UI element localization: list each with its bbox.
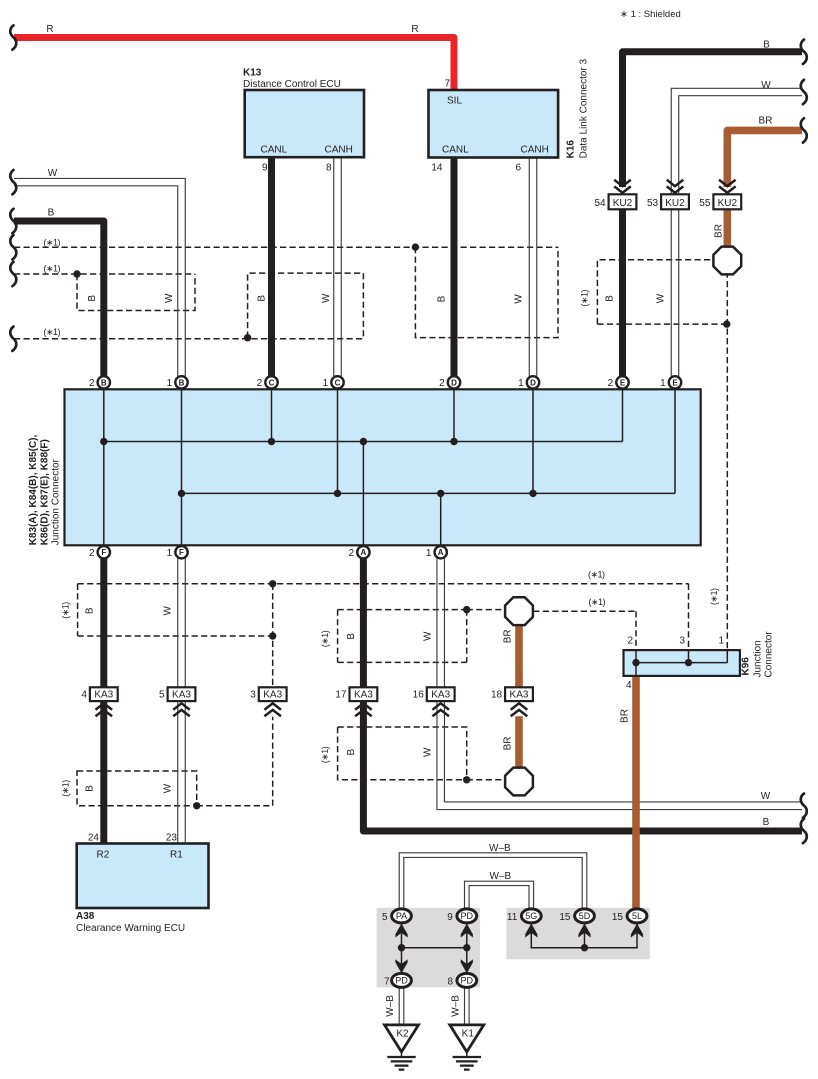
svg-text:5L: 5L <box>632 911 642 921</box>
svg-text:E: E <box>620 378 626 387</box>
junction dot dashed line no.3 / C box <box>244 334 251 341</box>
svg-text:KA3: KA3 <box>354 690 373 701</box>
svg-text:KU2: KU2 <box>665 198 685 209</box>
svg-text:F: F <box>101 548 106 557</box>
svg-text:W: W <box>48 168 58 179</box>
svg-text:K96: K96 <box>741 657 752 676</box>
wire B (left, to 2B) <box>14 221 104 376</box>
arrow above PD(8) <box>461 959 473 973</box>
junction dot dashed line no.2 / B box <box>73 270 80 277</box>
svg-text:E: E <box>672 378 678 387</box>
shield octagon (lower, below 18 KA3) <box>505 768 533 796</box>
svg-text:7: 7 <box>384 977 390 988</box>
svg-text:B: B <box>605 295 616 302</box>
arrow below 5G <box>525 924 537 938</box>
connector K16 Data Link Connector 3 <box>429 90 559 158</box>
svg-text:2: 2 <box>89 548 95 559</box>
svg-text:D: D <box>451 378 457 387</box>
shield arrows above 55 KU2 <box>719 180 736 193</box>
shield arrows below 4 KA3 <box>96 703 113 716</box>
lower shield box around 17/16 KA3 wires <box>338 727 467 780</box>
wire BR (top right) through 55 KU2 to shield octagon <box>727 130 802 187</box>
shield drain dashed wire to K96 pin 1 <box>726 262 728 650</box>
svg-text:B: B <box>763 40 770 51</box>
ECU A38 Clearance Warning ECU <box>77 844 209 909</box>
svg-text:B: B <box>87 295 98 302</box>
svg-text:K16: K16 <box>566 140 577 159</box>
ground K2 <box>385 1025 419 1052</box>
junction connector K96 box <box>624 650 740 676</box>
svg-text:5: 5 <box>159 690 165 701</box>
svg-text:(∗1): (∗1) <box>588 570 605 580</box>
link wire PD(9) to PD(8) <box>466 916 468 974</box>
svg-text:PD: PD <box>461 911 474 921</box>
shield arrows below 16 KA3 <box>432 703 449 716</box>
svg-text:16: 16 <box>413 690 425 701</box>
shield box around 17/16 KA3 wires <box>338 609 467 611</box>
svg-text:W: W <box>761 80 771 91</box>
connector 4 KA3 <box>90 687 118 701</box>
junction box pin 2(E) <box>616 376 628 388</box>
junction dot F box bottom <box>269 632 276 639</box>
arrow below 5L <box>631 924 643 938</box>
svg-text:5: 5 <box>382 912 388 923</box>
svg-text:W–B: W–B <box>490 871 512 882</box>
svg-text:K83(A), K84(B), K85(C),: K83(A), K84(B), K85(C), <box>28 435 39 546</box>
svg-text:A38: A38 <box>76 911 95 922</box>
junction dot lower A box <box>463 776 470 783</box>
wire B (top right) through 54 KU2 to 2E <box>623 52 803 187</box>
junction box pin 2(B) <box>98 376 110 388</box>
shield octagon (top right) <box>713 247 741 275</box>
svg-text:C: C <box>269 378 275 387</box>
junction dot A box top <box>463 606 470 613</box>
arrow below 5D <box>578 924 590 938</box>
wire W (top right, to 1E) <box>671 88 802 376</box>
svg-text:(∗1): (∗1) <box>320 746 330 763</box>
shield drain dashed wire to 3 KA3 <box>272 584 274 688</box>
svg-text:A: A <box>438 548 444 557</box>
svg-text:BR: BR <box>502 736 513 750</box>
dashed shield wire from octagon to K96 pin 2 <box>533 610 636 612</box>
arrow below PA <box>395 924 407 938</box>
wire W from 1F to A38 pin 23 <box>177 559 179 844</box>
wire B from K16 CANL pin 14 to 2D <box>451 158 458 377</box>
svg-text:KA3: KA3 <box>510 690 529 701</box>
svg-text:W–B: W–B <box>450 995 461 1017</box>
link wire PA-PD horizontal <box>402 947 467 949</box>
junction dot dashed line no.1 / D box <box>412 243 419 250</box>
shield arrows below 3 KA3 <box>264 703 281 716</box>
wire B from 2F to A38 pin 24 <box>100 559 107 844</box>
svg-text:B: B <box>85 607 96 614</box>
connector pin 15 5D <box>575 909 595 923</box>
dashed shield line (*1) no.1 <box>14 246 558 248</box>
svg-text:B: B <box>85 785 96 792</box>
svg-text:B: B <box>256 295 267 302</box>
shield box around 2E/1E wires <box>597 260 713 324</box>
svg-text:2: 2 <box>627 636 633 647</box>
junction box pin 1(E) <box>669 376 681 388</box>
svg-text:2: 2 <box>439 378 445 389</box>
wire W from K13 CANH pin 8 to 1C <box>333 157 335 376</box>
svg-text:C: C <box>335 378 341 387</box>
junction box pin 1(F) <box>175 546 187 558</box>
svg-text:W: W <box>514 294 525 304</box>
svg-text:1: 1 <box>167 548 173 559</box>
svg-text:B: B <box>48 208 55 219</box>
svg-text:KU2: KU2 <box>718 198 738 209</box>
svg-text:W–B: W–B <box>385 995 396 1017</box>
svg-text:1: 1 <box>660 378 666 389</box>
svg-text:F: F <box>179 548 184 557</box>
svg-text:Clearance Warning ECU: Clearance Warning ECU <box>76 923 185 934</box>
junction box pin 2(F) <box>98 546 110 558</box>
svg-text:(∗1): (∗1) <box>709 588 719 605</box>
wire W-B from PD(7) to ground K2 <box>398 988 400 1025</box>
svg-text:(∗1): (∗1) <box>320 630 330 647</box>
lower shield box around 2F/1F wires <box>77 771 197 806</box>
svg-text:18: 18 <box>491 690 503 701</box>
svg-text:CANH: CANH <box>325 145 353 156</box>
svg-text:54: 54 <box>594 198 606 209</box>
svg-text:W: W <box>162 606 173 616</box>
gray shield block (PA/PD connectors) <box>377 908 480 988</box>
svg-text:14: 14 <box>431 163 443 174</box>
junction box pin 1(C) <box>331 376 343 388</box>
svg-text:A: A <box>361 548 367 557</box>
svg-text:B: B <box>346 633 357 640</box>
connector 5 KA3 <box>168 687 196 701</box>
svg-text:R: R <box>411 24 418 35</box>
junction dot E box drain <box>723 320 730 327</box>
junction box pin 2(A) <box>357 546 369 558</box>
junction box pin 1(A) <box>435 546 447 558</box>
svg-text:24: 24 <box>88 833 100 844</box>
svg-text:(∗1): (∗1) <box>44 264 61 274</box>
arrow below PD(9) <box>461 924 473 938</box>
connector 3 KA3 <box>259 687 287 701</box>
connector pin 9 PD <box>457 909 477 923</box>
dashed shield line (*1) no.3 <box>14 338 365 340</box>
arrow above PD(7) <box>395 959 407 973</box>
svg-text:17: 17 <box>335 690 347 701</box>
svg-text:Data Link Connector 3: Data Link Connector 3 <box>579 58 590 158</box>
wire W-B from PA to 5D <box>399 853 587 910</box>
svg-text:BR: BR <box>759 116 773 127</box>
connector 17 KA3 <box>350 687 378 701</box>
svg-text:B: B <box>179 378 185 387</box>
svg-text:2: 2 <box>257 378 263 389</box>
svg-text:2: 2 <box>89 378 95 389</box>
svg-text:4: 4 <box>626 680 632 691</box>
connector 53 KU2 <box>661 194 689 209</box>
svg-text:K13: K13 <box>243 68 262 79</box>
svg-text:(∗1): (∗1) <box>61 780 71 797</box>
svg-text:CANH: CANH <box>521 145 549 156</box>
junction box pin 1(B) <box>175 376 187 388</box>
svg-text:15: 15 <box>612 912 624 923</box>
svg-text:6: 6 <box>515 163 521 174</box>
link wire PA to PD(7) <box>401 916 403 974</box>
shield arrows below 18 KA3 <box>511 703 528 716</box>
svg-text:W–B: W–B <box>489 843 511 854</box>
wire BR octagon to 18 KA3 <box>515 625 523 687</box>
svg-text:53: 53 <box>647 198 659 209</box>
svg-text:B: B <box>101 378 107 387</box>
shield drain dashed from lower F box to 3 KA3 <box>197 805 273 807</box>
junction box bus junction dots <box>100 438 107 445</box>
svg-text:W: W <box>321 293 332 303</box>
shield box around 2B/1B wires <box>77 274 195 311</box>
svg-text:KA3: KA3 <box>172 690 191 701</box>
junction connector K83(A)...K88(F) box <box>65 389 701 545</box>
junction box pin 1(D) <box>527 376 539 388</box>
svg-text:1: 1 <box>167 378 173 389</box>
svg-text:KA3: KA3 <box>431 690 450 701</box>
svg-text:K86(D), K87(E), K88(F): K86(D), K87(E), K88(F) <box>40 439 51 545</box>
junction dot lower F box <box>193 802 200 809</box>
junction box pin 2(C) <box>265 376 277 388</box>
wire W (left, to 1B) <box>14 178 185 376</box>
ground K1 <box>450 1025 484 1052</box>
junction box pin 2(D) <box>448 376 460 388</box>
wire B from 2A through 17 KA3 to right edge <box>363 559 802 832</box>
wire W from 1A through 16 KA3 to right edge <box>437 559 802 810</box>
svg-text:R1: R1 <box>170 850 183 861</box>
svg-text:∗ 1 : Shielded: ∗ 1 : Shielded <box>620 9 681 20</box>
svg-text:W: W <box>162 783 173 793</box>
svg-text:PD: PD <box>461 976 474 986</box>
svg-text:K1: K1 <box>462 1029 475 1040</box>
dashed shield wire from lower A box to octagon <box>467 779 505 781</box>
wire W from K16 CANH pin 6 to 1D <box>528 158 530 377</box>
svg-text:KU2: KU2 <box>613 198 633 209</box>
connector pin 8 PD <box>457 973 477 987</box>
svg-text:(∗1): (∗1) <box>44 238 61 248</box>
svg-text:Junction Connector: Junction Connector <box>51 458 62 545</box>
svg-text:B: B <box>763 817 770 828</box>
connector pin 7 PD <box>392 973 412 987</box>
wire W-B from PD(9) to 5G <box>465 881 534 909</box>
gray shield block (5G/5D/5L connectors) <box>506 908 649 960</box>
shield arrows above 53 KU2 <box>667 180 684 193</box>
svg-text:KA3: KA3 <box>94 690 113 701</box>
connector 18 KA3 <box>505 687 533 701</box>
svg-text:BR: BR <box>620 709 631 723</box>
svg-text:SIL: SIL <box>447 96 462 107</box>
svg-text:5D: 5D <box>579 911 591 921</box>
svg-text:(∗1): (∗1) <box>580 290 590 307</box>
svg-text:BR: BR <box>713 224 724 238</box>
svg-text:(∗1): (∗1) <box>589 597 606 607</box>
connector pin 5 PA <box>392 909 412 923</box>
svg-text:9: 9 <box>447 912 453 923</box>
junction box internal bus CANH <box>182 492 676 494</box>
svg-text:15: 15 <box>559 912 571 923</box>
svg-text:1: 1 <box>426 548 432 559</box>
svg-text:55: 55 <box>699 198 711 209</box>
wire BR from K96 pin 4 to 5L <box>632 676 640 909</box>
svg-text:4: 4 <box>81 690 87 701</box>
shield box around 2D/1D wires <box>415 247 558 338</box>
wire B from K13 CANL pin 9 to 2C <box>268 157 275 376</box>
svg-text:CANL: CANL <box>442 145 469 156</box>
svg-text:B: B <box>346 749 357 756</box>
shield octagon (middle, above 18 KA3) <box>505 597 533 625</box>
svg-text:3: 3 <box>250 690 256 701</box>
connector 55 KU2 <box>713 194 741 209</box>
svg-text:1: 1 <box>518 378 524 389</box>
svg-text:B: B <box>437 295 448 302</box>
wire R to K16 SIL pin 7 <box>14 38 454 91</box>
svg-text:Junction: Junction <box>753 640 764 677</box>
svg-text:9: 9 <box>262 163 268 174</box>
svg-text:1: 1 <box>718 636 724 647</box>
svg-text:11: 11 <box>507 912 518 923</box>
svg-text:23: 23 <box>166 833 178 844</box>
shield arrows above 54 KU2 <box>614 180 631 193</box>
svg-text:BR: BR <box>502 629 513 643</box>
junction box internal bus CANL <box>104 441 623 443</box>
svg-text:5G: 5G <box>525 911 537 921</box>
svg-text:2: 2 <box>349 548 355 559</box>
svg-text:2: 2 <box>608 378 614 389</box>
svg-text:1: 1 <box>323 378 329 389</box>
svg-text:R: R <box>46 24 53 35</box>
svg-text:8: 8 <box>326 163 332 174</box>
wire W-B from PD(8) to ground K1 <box>464 988 466 1025</box>
junction dot F box top <box>269 580 276 587</box>
svg-text:PD: PD <box>395 976 408 986</box>
svg-text:W: W <box>656 293 667 303</box>
svg-text:(∗1): (∗1) <box>44 327 61 337</box>
svg-text:D: D <box>530 378 536 387</box>
connector pin 15 5L <box>627 909 647 923</box>
svg-text:W: W <box>422 631 433 641</box>
svg-text:(∗1): (∗1) <box>61 602 71 619</box>
svg-text:R2: R2 <box>97 850 110 861</box>
svg-text:W: W <box>164 293 175 303</box>
link wire 5G to 5L <box>531 916 637 948</box>
svg-text:Distance Control ECU: Distance Control ECU <box>243 79 341 90</box>
shield box around 2C/1C wires <box>248 273 364 338</box>
connector pin 11 5G <box>521 909 541 923</box>
dashed shield line (*1) to K96 pin 3 <box>78 583 689 585</box>
svg-text:W: W <box>422 747 433 757</box>
connector 16 KA3 <box>427 687 455 701</box>
junction box internal wires <box>103 389 105 545</box>
svg-text:KA3: KA3 <box>263 690 282 701</box>
ECU K13 Distance Control ECU <box>245 90 364 157</box>
shield arrows below 5 KA3 <box>173 703 190 716</box>
wire BR 18 KA3 to lower octagon <box>515 716 523 767</box>
connector 54 KU2 <box>609 194 637 209</box>
shield box around 2F/1F wires <box>77 584 79 636</box>
dashed shield line (*1) no.2 <box>14 273 195 275</box>
shield arrows below 17 KA3 <box>355 703 372 716</box>
svg-text:7: 7 <box>444 79 450 90</box>
svg-text:CANL: CANL <box>261 145 288 156</box>
svg-text:Connector: Connector <box>764 631 775 678</box>
svg-text:8: 8 <box>447 977 453 988</box>
svg-text:W: W <box>761 791 771 802</box>
svg-text:PA: PA <box>396 911 407 921</box>
svg-text:3: 3 <box>679 636 685 647</box>
svg-text:K2: K2 <box>396 1029 409 1040</box>
